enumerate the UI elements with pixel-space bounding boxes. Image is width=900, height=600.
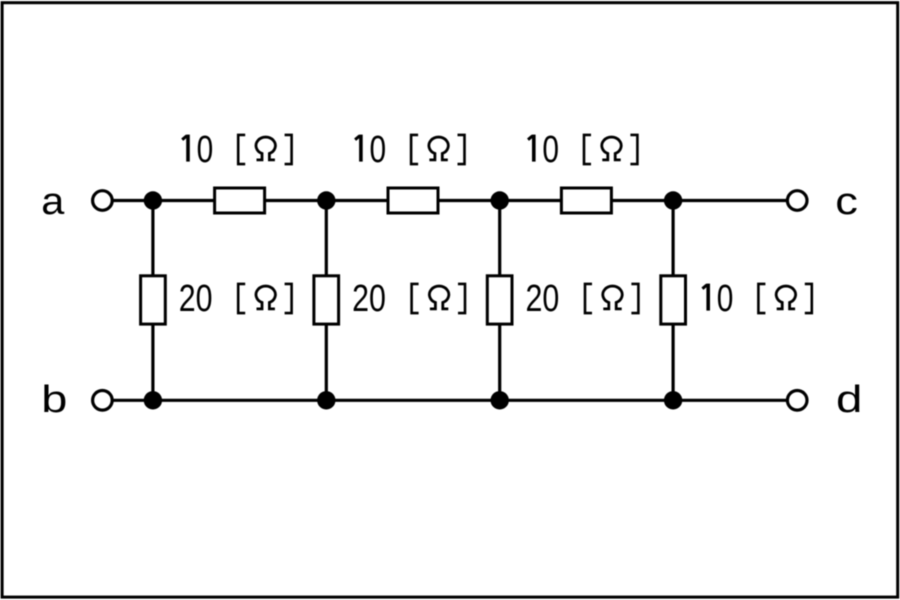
node junction top 2 xyxy=(317,191,335,209)
svg-text:20: 20 xyxy=(352,278,386,320)
value label R1: 10 [Ω] xyxy=(182,129,291,171)
svg-text:0: 0 xyxy=(717,278,734,320)
terminal a (open circle) xyxy=(93,191,113,211)
node junction top 3 xyxy=(491,191,509,209)
svg-text:d: d xyxy=(836,378,862,420)
value label R2: 10 [Ω] xyxy=(355,129,464,171)
wire: bottom rail from terminal b to terminal d xyxy=(102,399,797,402)
resistor R5 20Ω (shunt, branch 2) xyxy=(314,276,339,324)
resistor R7 10Ω (shunt, branch 4) xyxy=(661,276,686,324)
wire: top rail from terminal a to terminal c xyxy=(102,199,797,202)
svg-text:c: c xyxy=(835,179,858,222)
value label R4: 20 [Ω] xyxy=(179,278,292,320)
node junction bottom 2 xyxy=(317,391,335,409)
resistor R6 20Ω (shunt, branch 3) xyxy=(487,276,512,324)
svg-text:0: 0 xyxy=(542,129,559,171)
terminal c (open circle) xyxy=(787,191,807,211)
value label R6: 20 [Ω] xyxy=(526,278,639,320)
svg-text:0: 0 xyxy=(370,129,387,171)
resistor R1 10Ω (series, top rail) xyxy=(215,188,265,213)
terminal d (open circle) xyxy=(787,391,807,411)
wire: vertical branch 3 xyxy=(498,201,501,401)
value label R3: 10 [Ω] xyxy=(528,129,637,171)
terminal b (open circle) xyxy=(93,391,113,411)
value label R5: 20 [Ω] xyxy=(352,278,465,320)
svg-text:20: 20 xyxy=(526,278,560,320)
node junction top 1 xyxy=(144,191,162,209)
node junction bottom 1 xyxy=(144,391,162,409)
node junction top 4 xyxy=(664,191,682,209)
node junction bottom 4 xyxy=(664,391,682,409)
resistor R3 10Ω (series, top rail) xyxy=(561,188,611,213)
svg-text:a: a xyxy=(41,181,65,223)
svg-text:20: 20 xyxy=(179,278,213,320)
resistor R4 20Ω (shunt, branch 1) xyxy=(141,276,166,324)
resistor R2 10Ω (series, top rail) xyxy=(388,188,438,213)
wire: vertical branch 4 xyxy=(671,201,674,401)
svg-text:0: 0 xyxy=(197,129,214,171)
wire: vertical branch 2 xyxy=(325,201,328,401)
svg-text:b: b xyxy=(41,378,67,421)
value label R7: 10 [Ω] xyxy=(702,278,811,320)
node junction bottom 3 xyxy=(491,391,509,409)
wire: vertical branch 1 xyxy=(151,201,154,401)
